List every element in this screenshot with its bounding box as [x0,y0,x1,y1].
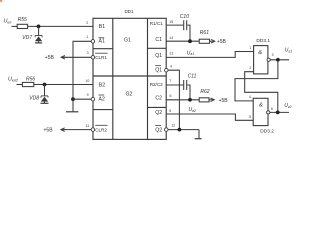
svg-text:Uв2: Uв2 [189,107,197,113]
wire DD1 pin 11 (CLR2) to +5V [62,129,91,131]
junction node DD3.1 output [276,58,280,62]
svg-text:R61: R61 [200,30,209,36]
svg-text:6: 6 [271,107,273,111]
svg-text:R55: R55 [18,17,27,23]
svg-text:A1: A1 [99,39,105,45]
svg-text:C10: C10 [180,14,189,20]
inversion circle DD3.2 output pin 6 [267,111,270,114]
svg-text:5: 5 [249,115,251,119]
wire R56 to DD1 pin 10 (B2) [34,84,93,86]
svg-text:R62: R62 [200,89,209,95]
svg-text:DD3.1: DD3.1 [256,38,270,44]
svg-text:15: 15 [169,20,173,24]
svg-text:G2: G2 [126,92,133,98]
wire DD1 pin 6 (C2) to R62 [166,99,199,101]
ground under VD8 [41,102,49,104]
wire DD1 pin 1 (A1) to ground rail [73,41,91,99]
wire junction to DD1 pin 9 (A2) [73,98,91,100]
svg-text:2: 2 [249,66,251,70]
arrow to +5V rail (R62) [211,98,215,102]
NAND gate DD3.1 [254,46,268,74]
wire DD3.2 output to DD3.1 input pin 2 [245,72,278,113]
ground under A1/A2 rail [72,99,74,111]
junction node Q1-bar/Q2-bar [178,128,182,132]
svg-text:Uг2: Uг2 [284,103,291,109]
svg-text:Uг1: Uг1 [285,48,292,54]
svg-text:+5В: +5В [45,55,55,61]
svg-text:&: & [259,103,263,109]
svg-text:R2/C2: R2/C2 [150,82,163,87]
svg-text:C11: C11 [188,73,197,79]
resistor R61 [199,39,209,43]
svg-text:R56: R56 [26,77,35,83]
svg-text:3: 3 [87,51,89,55]
junction node B1 input [37,25,41,29]
svg-text:C1: C1 [155,37,162,43]
resistor R56 [22,82,33,86]
wire input Uкл to R55 [12,25,18,27]
svg-text:&: & [258,50,262,56]
svg-text:B2: B2 [99,82,105,88]
svg-text:B1: B1 [99,24,105,30]
svg-text:1: 1 [249,46,251,50]
svg-text:4: 4 [170,64,172,68]
junction node A2 [71,97,75,101]
wire DD1 pin 3 (CLR1) to +5V [62,56,91,58]
svg-text:4: 4 [249,95,251,99]
junction node DD3.2 output [276,111,280,115]
svg-text:14: 14 [169,36,173,40]
svg-text:R1/C1: R1/C1 [150,21,163,26]
inversion circle pin 1 A1 [91,40,95,44]
svg-text:VD7: VD7 [22,35,32,41]
svg-text:A2: A2 [99,97,105,103]
svg-text:6: 6 [170,94,172,98]
svg-text:VD8: VD8 [29,96,39,102]
capacitor C11 [184,80,187,90]
IC DD1 body (dual monostable) [93,18,166,139]
wire C10 down to C1 node [187,25,190,41]
svg-text:Q2: Q2 [155,127,162,133]
arrow to +5V rail (CLR1) [61,56,65,60]
svg-text:Uв1: Uв1 [187,50,195,56]
inversion circle pin 9 A2 [91,97,95,101]
capacitor C10 [184,20,187,30]
wire Q2 pin 5 to DD3.2 input 5 [166,114,253,120]
inversion circle pin 3 CLR1 [91,56,95,60]
svg-text:Uкл2: Uкл2 [8,77,19,83]
svg-text:9: 9 [87,93,89,97]
svg-text:Q1: Q1 [155,68,162,74]
svg-text:DD1: DD1 [125,9,134,14]
inversion circle pin 11 CLR2 [91,128,95,132]
wire Q1-bar pin 4 down to Q2-bar node [168,70,179,129]
NAND gate DD3.2 [253,98,268,125]
svg-text:C2: C2 [155,96,162,102]
arrow to +5V rail (CLR2) [61,128,65,132]
svg-text:Q1: Q1 [155,53,162,59]
resistor R62 [199,98,209,102]
ground under Q2-bar wire [198,130,200,139]
junction node C1/C10/R61 [188,39,192,43]
svg-text:1: 1 [86,35,88,39]
wire R55 to DD1 pin 2 (B1) [28,25,93,27]
ground under VD7 [35,42,42,44]
wire input Uкл2 to R56 [17,84,23,86]
svg-text:CLR1: CLR1 [95,55,107,60]
zener diode VD7 [35,26,42,42]
junction node B2 input [43,83,47,87]
svg-text:CLR2: CLR2 [95,128,107,133]
wire DD1 pin 7 (R2/C2) to C11 [166,84,183,86]
resistor R55 [17,24,27,28]
wire DD3.2 output Uг2 [270,111,289,113]
svg-text:+5В: +5В [219,98,229,104]
zener diode VD8 [41,85,48,103]
svg-text:11: 11 [86,124,90,128]
svg-text:+5В: +5В [44,128,54,134]
wire Q2-bar pin 12 to ground [168,129,199,131]
svg-text:G1: G1 [124,38,131,44]
wire DD3.1 output to DD3.2 input pin 4 [235,60,278,101]
svg-text:12: 12 [171,124,175,128]
wire Q1 pin 13 to DD3.1 input 1 [166,52,253,58]
svg-text:10: 10 [85,79,89,83]
svg-text:3: 3 [272,53,274,57]
svg-text:Q2: Q2 [155,110,162,116]
junction node C2/C11/R62 [188,98,192,102]
svg-text:13: 13 [169,51,173,55]
inversion circle pin 12 Q2-bar [165,128,169,132]
wire R62 to +5V arrow [209,99,210,101]
arrow to +5V rail (R61) [211,39,215,43]
inversion circle pin 4 Q1-bar [165,68,169,72]
wire DD1 pin 14 (C1) to R61 [166,40,199,42]
wire DD1 pin 15 (R1/C1) to C10 [166,24,183,26]
svg-text:+5В: +5В [217,39,227,45]
wire DD3.1 output Uг1 [270,59,289,61]
svg-text:5: 5 [169,109,171,113]
svg-text:7: 7 [169,79,171,83]
svg-text:Uкл: Uкл [4,19,13,25]
svg-text:DD3.2: DD3.2 [260,128,274,134]
wire R61 to +5V arrow [210,40,211,42]
inversion circle DD3.1 output pin 3 [267,58,270,61]
wire C11 down to C2 node [187,85,190,100]
svg-text:2: 2 [86,21,88,25]
